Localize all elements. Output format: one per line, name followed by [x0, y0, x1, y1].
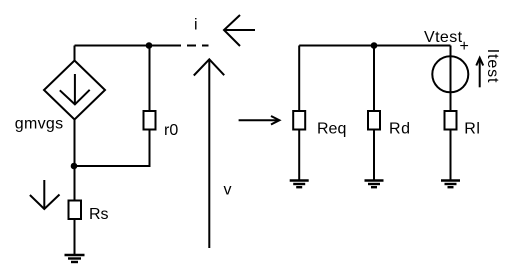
svg-text:v: v: [224, 182, 232, 199]
svg-text:Req: Req: [317, 121, 346, 138]
svg-text:Rs: Rs: [89, 206, 109, 223]
svg-text:i: i: [194, 17, 198, 34]
svg-text:r0: r0: [164, 122, 178, 139]
svg-text:gmvgs: gmvgs: [15, 115, 64, 132]
svg-text:Rl: Rl: [464, 121, 480, 138]
svg-text:Itest: Itest: [484, 49, 501, 83]
svg-text:Vtest: Vtest: [424, 29, 463, 46]
svg-text:+: +: [460, 38, 469, 55]
svg-text:Rd: Rd: [389, 121, 411, 138]
